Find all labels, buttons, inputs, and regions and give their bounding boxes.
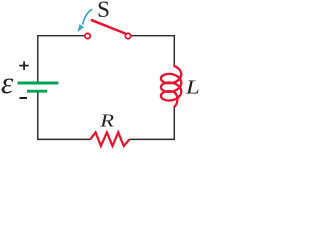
switch close-direction arrow (blue) <box>77 9 92 32</box>
svg-text:ε: ε <box>1 65 14 100</box>
wire left branch <box>38 36 90 140</box>
resistor R zigzag <box>90 132 129 146</box>
svg-text:R: R <box>99 110 114 130</box>
svg-text:L: L <box>185 77 199 98</box>
battery EMF source plates <box>18 83 59 91</box>
wire right branch <box>129 36 174 140</box>
battery minus sign <box>20 97 28 99</box>
inductor L coil <box>161 66 181 107</box>
svg-text:S: S <box>97 0 110 22</box>
battery plus sign <box>19 61 28 70</box>
switch S arm <box>91 20 126 34</box>
switch left contact <box>85 33 90 38</box>
switch right contact <box>125 33 130 38</box>
